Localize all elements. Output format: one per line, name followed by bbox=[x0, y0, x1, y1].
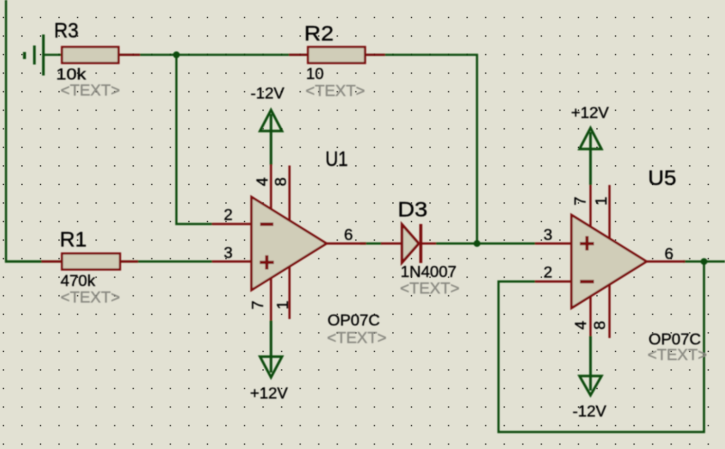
svg-text:<TEXT>: <TEXT> bbox=[327, 330, 387, 347]
power -12V arrow above U1 bbox=[260, 110, 282, 165]
svg-text:OP07C: OP07C bbox=[649, 332, 701, 349]
op-amp U1 bbox=[212, 165, 366, 321]
svg-text:<TEXT>: <TEXT> bbox=[61, 290, 121, 307]
node junction at U5 output bbox=[701, 258, 708, 265]
svg-text:-12V: -12V bbox=[573, 404, 607, 421]
svg-text:6: 6 bbox=[665, 246, 674, 263]
svg-text:<TEXT>: <TEXT> bbox=[61, 83, 121, 100]
wire: R3 right side to R2 left side bbox=[119, 54, 309, 56]
svg-text:8: 8 bbox=[273, 177, 290, 186]
power +12V arrow below U1 bbox=[260, 321, 282, 378]
svg-text:R2: R2 bbox=[304, 23, 334, 46]
svg-text:U1: U1 bbox=[325, 148, 348, 171]
svg-text:3: 3 bbox=[544, 227, 553, 244]
svg-text:7: 7 bbox=[250, 301, 267, 310]
wire: U5 feedback loop pin 2 to output bbox=[499, 262, 705, 433]
svg-text:<TEXT>: <TEXT> bbox=[400, 281, 460, 298]
svg-text:1: 1 bbox=[594, 197, 611, 206]
svg-text:2: 2 bbox=[224, 207, 233, 224]
wire: R1 row to U1 pin 3 bbox=[5, 260, 212, 262]
resistor R2 bbox=[289, 47, 385, 63]
svg-text:<TEXT>: <TEXT> bbox=[306, 83, 366, 100]
svg-text:6: 6 bbox=[344, 227, 353, 244]
node junction at R3/R2 rail bbox=[173, 51, 180, 58]
svg-text:470k: 470k bbox=[61, 273, 97, 290]
svg-text:D3: D3 bbox=[398, 199, 428, 222]
wire: diode cathode to U5 pin 3 bbox=[436, 242, 535, 244]
wire: top-rail junction down to U1 pin 2 bbox=[176, 55, 212, 224]
svg-text:10: 10 bbox=[306, 66, 324, 83]
svg-text:R1: R1 bbox=[60, 229, 87, 252]
wire: U1 output to diode anode bbox=[360, 242, 382, 244]
power -12V arrow below U5 bbox=[580, 336, 602, 395]
wire: left vertical input from top edge down to R1 row bbox=[6, 0, 42, 262]
svg-text:R3: R3 bbox=[54, 20, 79, 43]
svg-text:8: 8 bbox=[592, 321, 609, 330]
svg-text:1N4007: 1N4007 bbox=[401, 264, 457, 281]
svg-text:7: 7 bbox=[573, 197, 590, 206]
svg-text:4: 4 bbox=[254, 177, 271, 186]
svg-text:+12V: +12V bbox=[571, 105, 609, 122]
svg-text:4: 4 bbox=[573, 321, 590, 330]
node junction on diode output rail bbox=[474, 240, 481, 247]
op-amp U5 bbox=[535, 185, 685, 338]
svg-text:3: 3 bbox=[224, 245, 233, 262]
svg-text:+12V: +12V bbox=[250, 386, 288, 403]
svg-text:OP07C: OP07C bbox=[328, 313, 380, 330]
resistor R1 bbox=[42, 254, 139, 270]
svg-text:1: 1 bbox=[275, 301, 292, 310]
svg-text:2: 2 bbox=[544, 265, 553, 282]
resistor R3 bbox=[62, 47, 140, 63]
diode D3 bbox=[381, 224, 436, 263]
svg-text:<TEXT>: <TEXT> bbox=[648, 347, 708, 364]
wire: R2 right side down to diode output rail bbox=[365, 55, 477, 244]
ground (rotated, left of R3) bbox=[25, 35, 63, 76]
power +12V arrow above U5 bbox=[580, 128, 602, 185]
wire: U5 output to right edge bbox=[683, 260, 725, 262]
svg-text:10k: 10k bbox=[56, 67, 87, 84]
svg-text:-12V: -12V bbox=[251, 86, 285, 103]
svg-text:U5: U5 bbox=[648, 167, 677, 190]
